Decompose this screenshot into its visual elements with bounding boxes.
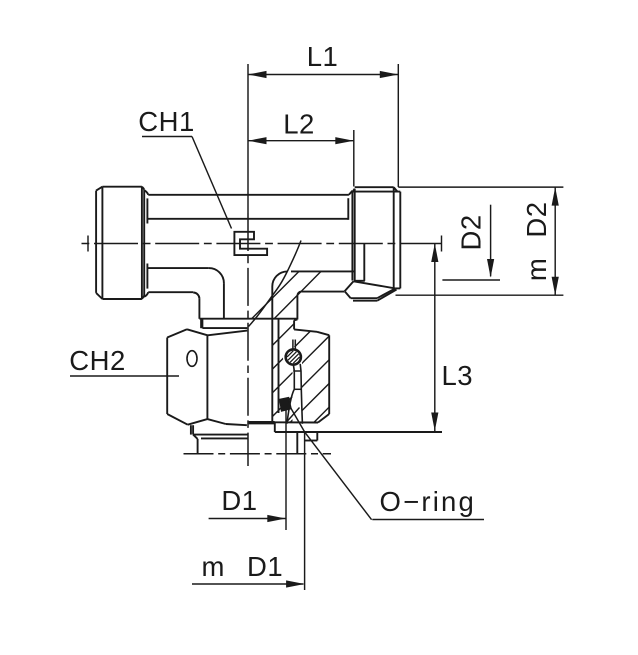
svg-text:m: m xyxy=(202,551,225,582)
svg-text:D2: D2 xyxy=(456,214,487,250)
svg-text:D1: D1 xyxy=(247,551,283,582)
svg-text:CH2: CH2 xyxy=(69,345,126,376)
svg-text:L3: L3 xyxy=(442,360,474,391)
svg-text:O−ring: O−ring xyxy=(380,486,477,517)
svg-text:L1: L1 xyxy=(307,41,339,72)
svg-text:L2: L2 xyxy=(283,109,315,140)
svg-text:D1: D1 xyxy=(221,485,257,516)
svg-text:CH1: CH1 xyxy=(138,106,195,137)
svg-text:m: m xyxy=(521,258,552,281)
svg-text:D2: D2 xyxy=(521,201,552,237)
